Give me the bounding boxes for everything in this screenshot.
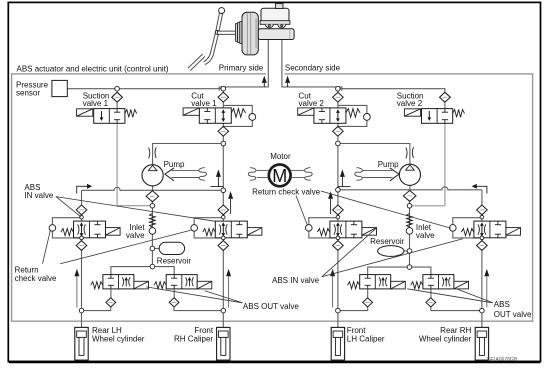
svg-text:valve: valve	[126, 231, 145, 240]
svg-text:RH Caliper: RH Caliper	[174, 334, 213, 343]
svg-text:valve 2: valve 2	[397, 99, 423, 108]
svg-text:LH Caliper: LH Caliper	[347, 334, 385, 343]
svg-text:sensor: sensor	[16, 88, 40, 97]
svg-text:Reservoir: Reservoir	[157, 257, 192, 266]
svg-text:M: M	[272, 166, 287, 186]
svg-text:OUT valve: OUT valve	[494, 310, 532, 319]
svg-text:ABS actuator and electric unit: ABS actuator and electric unit (control …	[17, 64, 169, 73]
svg-text:Pump: Pump	[164, 160, 185, 169]
svg-text:Primary side: Primary side	[219, 63, 264, 72]
svg-text:Pump: Pump	[378, 160, 399, 169]
svg-text:valve 1: valve 1	[191, 99, 217, 108]
svg-text:Motor: Motor	[270, 152, 291, 161]
svg-text:check valve: check valve	[15, 274, 57, 283]
svg-text:ABS IN valve: ABS IN valve	[272, 276, 320, 285]
svg-text:IN valve: IN valve	[24, 191, 53, 200]
svg-text:ABS: ABS	[494, 300, 510, 309]
svg-text:valve: valve	[416, 231, 435, 240]
svg-text:Wheel cylinder: Wheel cylinder	[92, 334, 145, 343]
svg-text:valve 2: valve 2	[299, 99, 325, 108]
svg-text:Wheel cylinder: Wheel cylinder	[419, 334, 472, 343]
svg-text:valve 1: valve 1	[83, 99, 109, 108]
svg-text:ABS OUT valve: ABS OUT valve	[243, 302, 299, 311]
svg-text:Reservoir: Reservoir	[370, 237, 405, 246]
svg-text:Secondary side: Secondary side	[285, 63, 341, 72]
svg-text:Return check valve: Return check valve	[252, 187, 321, 196]
